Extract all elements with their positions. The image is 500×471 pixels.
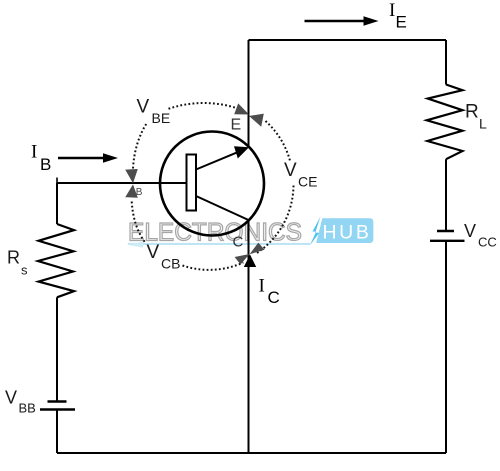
wire: VCC to bottom: [445, 241, 447, 453]
svg-text:CB: CB: [161, 256, 180, 272]
svg-text:I: I: [259, 276, 265, 297]
arrowhead VCB at base (points up): [125, 184, 138, 197]
label VBB: [5, 388, 36, 416]
svg-text:V: V: [284, 160, 297, 181]
svg-text:C: C: [268, 288, 280, 307]
svg-text:s: s: [21, 263, 28, 278]
wire: emitter vertical up to top: [248, 40, 250, 147]
label VCB: [147, 242, 181, 272]
svg-text:R: R: [465, 102, 479, 123]
battery VBB short plate: [48, 400, 67, 402]
arrowhead VCE at emitter (points left-up): [249, 114, 264, 127]
arrowhead VBE at base (points down): [125, 169, 138, 183]
arc VBE dotted (base to emitter): [133, 103, 238, 168]
arc VCB dotted (base to collector): [132, 202, 244, 270]
svg-text:B: B: [40, 155, 51, 174]
svg-text:CE: CE: [298, 174, 317, 190]
svg-text:CC: CC: [478, 235, 497, 250]
transistor Q1 base bar: [187, 155, 197, 211]
label VCE: [284, 160, 317, 190]
svg-text:E: E: [396, 13, 407, 32]
transistor Q1 emitter arrowhead: [234, 146, 249, 158]
arrowhead VCE at collector (points down-left): [250, 243, 265, 255]
wire: RS to VBB battery: [56, 297, 58, 401]
svg-text:V: V: [147, 242, 160, 263]
label VCC: [464, 221, 497, 250]
current arrow IB: [58, 153, 118, 163]
battery VCC short plate: [437, 230, 454, 232]
arrowhead VBE at emitter (points right-down): [234, 103, 249, 114]
svg-text:C: C: [233, 234, 244, 251]
svg-text:BE: BE: [152, 110, 171, 126]
resistor RS: [38, 224, 74, 297]
transistor Q1 emitter line: [196, 151, 240, 169]
wire: base horizontal from left node: [57, 182, 187, 184]
svg-text:V: V: [464, 221, 476, 241]
transistor Q1 collector line: [196, 196, 249, 220]
svg-text:BB: BB: [19, 401, 36, 416]
svg-text:I: I: [389, 0, 395, 21]
svg-text:E: E: [231, 117, 242, 134]
current arrow IC on collector wire (points up): [244, 255, 256, 268]
svg-text:V: V: [5, 388, 17, 408]
wire: RL to VCC battery: [445, 159, 447, 231]
svg-text:R: R: [7, 248, 20, 268]
label IB: [31, 142, 51, 175]
arrowhead VCB at collector (points up-right): [235, 254, 250, 265]
wire: VBB to bottom: [56, 410, 58, 454]
wire: collector vertical down to bottom: [248, 220, 250, 453]
wire: right vertical top to RL: [445, 40, 447, 85]
wire: left node stub above base wire: [56, 178, 58, 184]
current arrow IE: [305, 16, 379, 26]
label RS: [7, 248, 28, 278]
wire: bottom horizontal: [57, 452, 446, 454]
wire: left vertical base wire to RS: [56, 183, 58, 224]
svg-text:V: V: [137, 97, 150, 118]
battery VBB long plate: [40, 408, 75, 410]
svg-text:HUB: HUB: [323, 222, 372, 244]
svg-text:I: I: [31, 142, 37, 163]
arc VCE dotted (emitter to collector): [256, 121, 294, 254]
label RL: [465, 102, 487, 132]
wire: top horizontal (emitter to RL): [249, 39, 447, 41]
transistor Q1 circle: [160, 132, 264, 236]
label IC: [259, 276, 280, 308]
resistor RL: [427, 85, 463, 160]
watermark ELECTRONICS HUB logo: [127, 217, 374, 248]
label VBE: [137, 97, 171, 127]
battery VCC long plate: [430, 240, 465, 242]
label IE: [389, 0, 407, 32]
svg-text:L: L: [479, 116, 487, 132]
